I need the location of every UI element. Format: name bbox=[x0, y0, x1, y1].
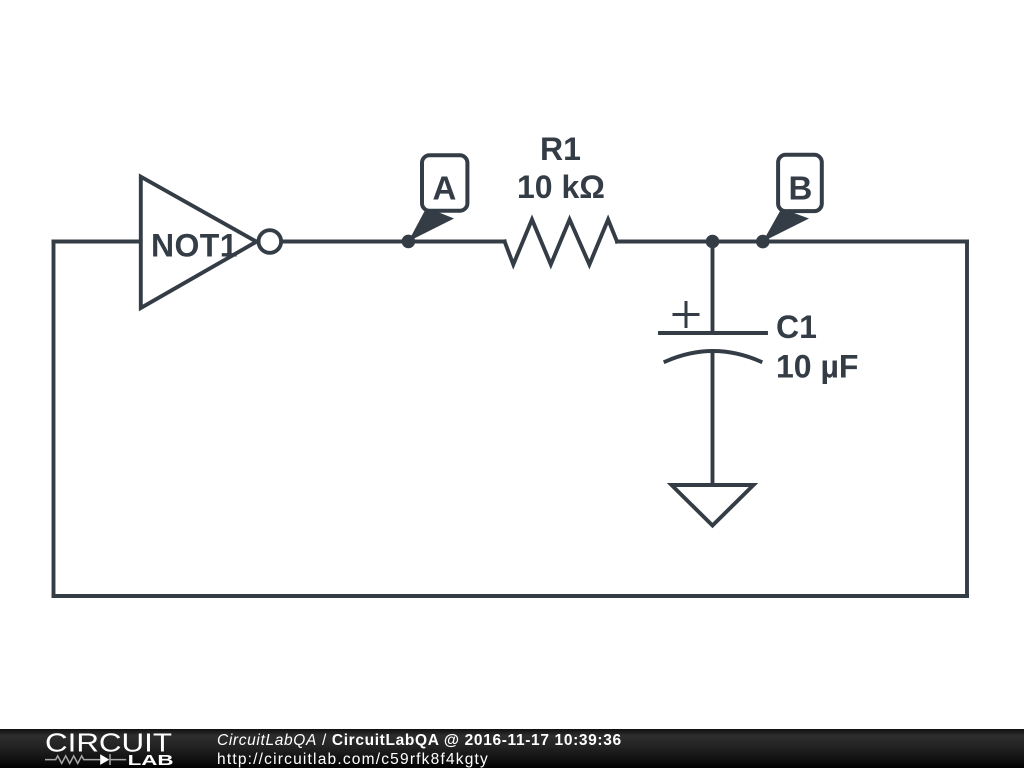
wire: right side bbox=[965, 242, 969, 597]
node A flag pointer bbox=[408, 208, 454, 242]
svg-text:R1: R1 bbox=[540, 131, 581, 167]
node B flag pointer bbox=[763, 209, 809, 242]
resistor R1 bbox=[505, 220, 617, 265]
wire: left feedback side bbox=[52, 242, 56, 597]
wire: capacitor to ground bbox=[711, 352, 715, 484]
wire: NOT1 input segment bbox=[54, 240, 143, 244]
CircuitLab logo bbox=[44, 729, 176, 768]
svg-text:C1: C1 bbox=[776, 309, 817, 345]
svg-text:A: A bbox=[433, 170, 457, 207]
NOT1 output bubble bbox=[259, 230, 282, 253]
footer attribution text bbox=[217, 731, 622, 769]
capacitor C1 curved bottom plate bbox=[666, 351, 761, 362]
svg-text:10 kΩ: 10 kΩ bbox=[517, 169, 605, 205]
NOT gate NOT1 triangle bbox=[141, 177, 257, 308]
wire: resistor to right side bbox=[617, 240, 967, 244]
ground symbol bbox=[672, 485, 754, 526]
node B flag box bbox=[778, 155, 822, 211]
svg-text:10 µF: 10 µF bbox=[776, 349, 858, 385]
node junction dot at capacitor bbox=[706, 235, 720, 249]
svg-text:B: B bbox=[789, 170, 813, 207]
node A flag box bbox=[422, 155, 467, 210]
capacitor C1 top lead wire bbox=[711, 242, 715, 332]
svg-text:LAB: LAB bbox=[128, 753, 174, 768]
wire: NOT1 output to resistor bbox=[283, 240, 505, 244]
wire: bottom side bbox=[54, 594, 968, 598]
node B junction dot bbox=[756, 235, 770, 249]
node A junction dot bbox=[402, 235, 416, 249]
svg-text:NOT1: NOT1 bbox=[151, 227, 238, 263]
capacitor C1 top plate bbox=[660, 331, 766, 335]
capacitor C1 plus sign bbox=[674, 303, 698, 327]
footer bar bbox=[0, 729, 1024, 768]
